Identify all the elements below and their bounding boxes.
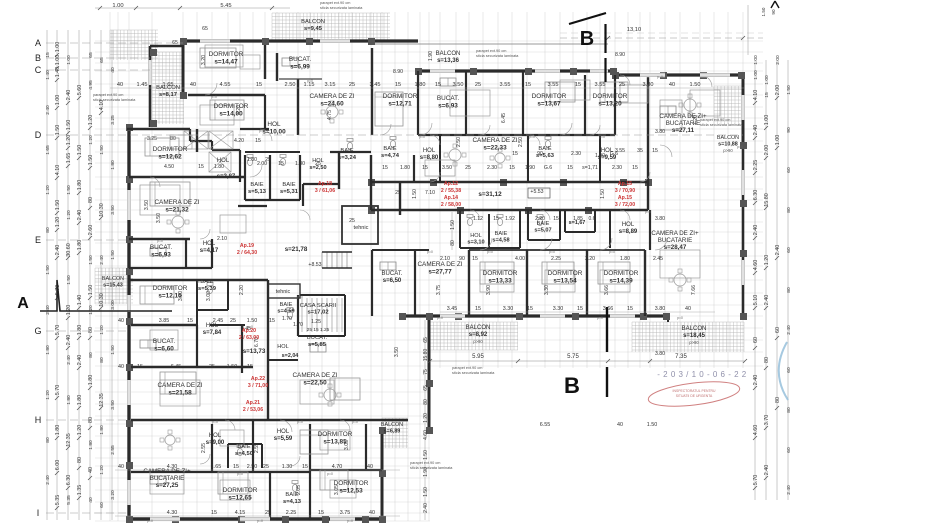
svg-text:p>90: p>90 [473,339,483,344]
svg-text:2.55: 2.55 [110,445,116,455]
svg-text:80: 80 [45,227,51,233]
svg-text:CAMERA DE ZI: CAMERA DE ZI [154,199,199,206]
svg-text:DORMITOR: DORMITOR [153,285,188,292]
svg-text:BUCAT.: BUCAT. [382,271,403,277]
svg-text:3.15: 3.15 [325,82,336,88]
svg-text:p=0: p=0 [247,325,253,329]
svg-text:3 / 61,06: 3 / 61,06 [315,188,335,194]
svg-text:BUCAT.: BUCAT. [289,56,311,63]
svg-text:1.30: 1.30 [282,464,293,470]
svg-text:s=21,32: s=21,32 [165,207,189,214]
svg-text:BALCON: BALCON [381,422,403,428]
svg-text:1.50: 1.50 [227,364,238,370]
svg-text:4.00: 4.00 [515,256,525,262]
svg-text:p=0: p=0 [609,250,615,254]
svg-text:BALCON: BALCON [466,325,491,331]
svg-text:65: 65 [423,385,429,391]
svg-text:1.20: 1.20 [764,255,770,266]
svg-text:2.00: 2.00 [775,85,781,96]
svg-text:2 / 53,06: 2 / 53,06 [243,407,263,413]
svg-text:3.00: 3.00 [110,300,116,310]
svg-text:2.40: 2.40 [764,295,770,306]
svg-text:2 / 63,00: 2 / 63,00 [239,335,259,341]
svg-text:sticla securizata laminata: sticla securizata laminata [93,98,136,102]
svg-text:4.60: 4.60 [753,425,759,436]
svg-text:p=0: p=0 [437,316,443,320]
svg-text:25: 25 [263,464,269,470]
svg-text:1.80: 1.80 [77,240,83,251]
svg-text:2.00: 2.00 [775,55,781,65]
svg-text:B: B [580,28,594,50]
svg-text:7.66: 7.66 [691,285,697,295]
svg-text:10.30: 10.30 [99,203,105,217]
svg-text:4.60: 4.60 [423,430,429,440]
svg-text:HOL: HOL [312,158,324,164]
svg-text:4.95: 4.95 [88,80,94,90]
svg-text:3.75: 3.75 [436,285,442,295]
svg-text:p=0: p=0 [517,316,523,320]
svg-text:15: 15 [278,161,284,167]
svg-text:15: 15 [652,148,658,154]
svg-text:1.35: 1.35 [77,485,83,496]
svg-text:1.50: 1.50 [786,85,792,95]
svg-text:p=0: p=0 [347,519,353,523]
svg-text:2.40: 2.40 [764,465,770,476]
svg-text:s=9,00: s=9,00 [206,440,225,446]
svg-text:s=4,59: s=4,59 [277,309,294,315]
svg-text:15: 15 [577,306,583,312]
svg-text:p=0: p=0 [419,135,425,139]
svg-text:1.50: 1.50 [412,189,418,199]
svg-text:s=9,59: s=9,59 [598,155,617,161]
svg-text:DORMITOR: DORMITOR [209,51,244,58]
svg-text:15: 15 [493,216,499,222]
svg-text:p=0: p=0 [257,519,263,523]
svg-text:p=0: p=0 [597,316,603,320]
svg-text:1.90: 1.90 [525,165,535,171]
svg-text:s=9,45: s=9,45 [304,26,323,32]
svg-text:40: 40 [118,464,124,470]
svg-text:Ap.22: Ap.22 [251,376,265,382]
svg-text:15: 15 [198,164,204,170]
svg-text:BALCON: BALCON [156,85,180,91]
svg-text:2.45: 2.45 [653,256,663,262]
svg-text:2.40: 2.40 [66,335,72,346]
svg-text:CAMERA DE ZI: CAMERA DE ZI [309,93,354,100]
svg-text:s=4,74: s=4,74 [381,153,400,159]
svg-text:2.10: 2.10 [217,236,227,242]
svg-text:tehnic: tehnic [354,225,369,231]
svg-text:60: 60 [786,367,792,373]
svg-text:1.00: 1.00 [66,55,72,65]
svg-text:3.55: 3.55 [595,82,606,88]
svg-text:p=0: p=0 [599,135,605,139]
svg-text:80: 80 [88,327,94,333]
svg-text:HOL: HOL [209,433,222,439]
svg-text:15: 15 [575,82,581,88]
svg-text:s=13,73: s=13,73 [243,348,266,355]
svg-text:25: 25 [395,190,401,196]
svg-text:3.50: 3.50 [442,165,452,171]
svg-text:15: 15 [553,216,559,222]
svg-text:1.20: 1.20 [77,425,83,436]
svg-text:SITUATII DE URGENTA: SITUATII DE URGENTA [676,394,713,398]
svg-text:25: 25 [349,218,355,224]
svg-text:15: 15 [395,82,401,88]
svg-text:80: 80 [170,136,176,142]
svg-text:65: 65 [423,337,429,343]
svg-text:4.50: 4.50 [164,164,174,170]
svg-text:sticla securizata laminata: sticla securizata laminata [700,123,743,127]
svg-text:15: 15 [318,510,324,516]
svg-text:DORMITOR: DORMITOR [223,487,258,494]
svg-text:p=0: p=0 [677,316,683,320]
svg-text:s=8,17: s=8,17 [159,92,177,98]
svg-text:5.70: 5.70 [753,475,759,486]
svg-text:1.00: 1.00 [764,115,770,126]
svg-text:75: 75 [423,369,429,375]
svg-text:4.10: 4.10 [55,165,61,176]
svg-text:s=22,50: s=22,50 [303,380,327,387]
svg-text:1.50: 1.50 [600,189,606,199]
svg-text:60: 60 [753,337,759,343]
svg-text:s=3,24: s=3,24 [338,155,357,161]
svg-text:s=8,80: s=8,80 [420,155,439,161]
svg-text:80: 80 [423,399,429,405]
svg-text:15.80: 15.80 [764,193,770,207]
svg-text:s=6,93: s=6,93 [151,252,171,259]
svg-text:2 / 58,00: 2 / 58,00 [441,202,461,208]
svg-text:p>90: p>90 [723,148,733,153]
svg-text:3.45: 3.45 [447,306,458,312]
svg-text:25: 25 [465,165,471,171]
svg-text:35: 35 [637,148,643,154]
svg-text:BUCATARIE: BUCATARIE [150,475,185,482]
svg-text:s=5,31: s=5,31 [280,189,299,195]
svg-text:25: 25 [349,82,355,88]
svg-text:DORMITOR: DORMITOR [532,93,567,100]
svg-text:tehnic: tehnic [276,289,291,295]
svg-text:60: 60 [786,247,792,253]
svg-text:3.50: 3.50 [110,205,116,215]
svg-text:1.80: 1.80 [55,425,61,436]
svg-text:3.80: 3.80 [655,306,666,312]
svg-text:1.65: 1.65 [211,464,222,470]
svg-text:1.20: 1.20 [55,217,61,228]
svg-text:BAIE: BAIE [285,492,298,498]
svg-text:p=0: p=0 [212,420,218,424]
svg-text:4.15: 4.15 [235,510,246,516]
svg-text:1.65: 1.65 [45,145,51,155]
svg-text:BAIE: BAIE [280,302,293,308]
svg-text:- 2 0 3 / 1 0 - 0 6 - 2 2: - 2 0 3 / 1 0 - 0 6 - 2 2 [657,370,746,379]
svg-text:1.80: 1.80 [415,82,426,88]
svg-text:1.50: 1.50 [99,145,105,155]
svg-text:s=17,02: s=17,02 [307,310,328,316]
svg-text:8.90: 8.90 [615,52,625,58]
svg-text:15: 15 [764,92,770,98]
svg-text:s=14,00: s=14,00 [219,111,243,118]
svg-text:2.40: 2.40 [786,325,792,335]
svg-text:s=5,13: s=5,13 [248,189,267,195]
svg-text:3.55: 3.55 [548,82,559,88]
svg-text:25: 25 [475,82,481,88]
svg-text:1.80: 1.80 [110,160,116,170]
svg-text:2.40: 2.40 [55,245,61,256]
svg-text:D: D [35,130,42,140]
svg-text:1.92: 1.92 [505,216,515,222]
svg-text:1.80: 1.80 [77,180,83,191]
svg-text:15: 15 [247,364,253,370]
svg-text:HOL: HOL [622,222,635,228]
svg-text:s=6,99: s=6,99 [290,64,310,71]
svg-text:p=0: p=0 [211,95,217,99]
svg-text:2.40: 2.40 [66,355,72,365]
svg-text:2.40: 2.40 [45,475,51,485]
svg-text:p=0: p=0 [259,129,265,133]
svg-text:parapet ext.90 cm: parapet ext.90 cm [410,461,440,465]
svg-text:1.50: 1.50 [66,275,72,285]
svg-text:65: 65 [88,52,94,58]
svg-text:1.20: 1.20 [45,185,51,195]
svg-text:30.60: 30.60 [66,243,72,257]
svg-text:25: 25 [265,157,271,163]
svg-text:DORMITOR: DORMITOR [214,103,249,110]
svg-text:s=4,13: s=4,13 [283,499,302,505]
svg-text:1.50: 1.50 [110,250,116,260]
svg-text:1.20: 1.20 [45,390,51,400]
svg-text:5.10: 5.10 [753,295,759,306]
svg-text:DORMITOR: DORMITOR [318,431,353,438]
svg-text:3.20: 3.20 [110,490,116,500]
svg-text:Ap.15: Ap.15 [618,181,632,187]
svg-text:1.40: 1.40 [45,70,51,80]
svg-text:BALCON: BALCON [301,19,325,25]
svg-text:CAMERA DE ZI: CAMERA DE ZI [417,261,462,268]
svg-text:s=5,63: s=5,63 [536,153,555,159]
svg-text:40: 40 [669,82,675,88]
svg-text:1.20: 1.20 [88,135,94,145]
svg-text:BUCATARIE: BUCATARIE [658,237,693,244]
svg-text:s=10,88: s=10,88 [718,142,738,148]
svg-text:15: 15 [382,165,388,171]
svg-text:2.50: 2.50 [518,137,524,147]
svg-text:2.40: 2.40 [775,245,781,256]
svg-text:3.66: 3.66 [604,285,610,295]
svg-text:7.35: 7.35 [675,354,687,360]
svg-text:15: 15 [233,464,239,470]
svg-text:DORMITOR: DORMITOR [153,146,188,153]
svg-text:DORMITOR: DORMITOR [604,270,639,277]
svg-text:5.75: 5.75 [567,354,579,360]
svg-text:s=14,39: s=14,39 [609,278,633,285]
svg-text:BALCON: BALCON [102,276,124,282]
svg-text:3.70: 3.70 [764,415,770,426]
svg-text:p=0: p=0 [297,295,303,299]
svg-text:Ap.21: Ap.21 [246,400,260,406]
svg-text:25: 25 [265,510,271,516]
svg-text:DORMITOR: DORMITOR [483,270,518,277]
svg-text:15: 15 [45,52,51,58]
svg-text:CAMERA DE ZI: CAMERA DE ZI [472,137,517,144]
svg-text:5.95: 5.95 [472,354,484,360]
svg-text:1.50: 1.50 [55,200,61,211]
svg-text:s=5,07: s=5,07 [534,228,551,234]
svg-text:BUCAT.: BUCAT. [150,244,172,251]
svg-text:1.45: 1.45 [137,82,148,88]
svg-text:BUCAT.: BUCAT. [153,338,175,345]
svg-text:1.12: 1.12 [473,216,483,222]
svg-text:80: 80 [786,207,792,213]
svg-text:3.30: 3.30 [544,285,550,295]
svg-text:1.00: 1.00 [764,75,770,85]
svg-text:2.40: 2.40 [423,503,429,513]
svg-text:2 / 64,30: 2 / 64,30 [237,250,257,256]
svg-text:1.80: 1.80 [400,165,410,171]
svg-text:2.40: 2.40 [753,225,759,236]
svg-text:6.45: 6.45 [501,113,507,123]
svg-text:s=8,89: s=8,89 [619,229,638,235]
svg-text:s=3,87: s=3,87 [217,174,236,180]
svg-text:s=12,62: s=12,62 [158,154,182,161]
svg-text:80: 80 [45,437,51,443]
svg-text:CAMERA DE ZI: CAMERA DE ZI [292,372,337,379]
svg-text:1.50: 1.50 [690,82,701,88]
svg-text:10.30: 10.30 [99,293,105,307]
svg-text:p=0: p=0 [657,75,663,79]
svg-text:s=7,84: s=7,84 [203,330,222,336]
svg-text:3.80: 3.80 [643,82,654,88]
svg-text:1.20: 1.20 [66,210,72,220]
svg-text:6.55: 6.55 [540,422,551,428]
svg-text:BALCON: BALCON [436,51,461,57]
svg-text:3.50: 3.50 [453,82,464,88]
svg-text:s=13,85: s=13,85 [323,439,347,446]
svg-text:1.50: 1.50 [45,265,51,275]
svg-text:80: 80 [450,240,456,246]
svg-text:3.85: 3.85 [159,318,170,324]
svg-text:3.80: 3.80 [655,351,665,357]
svg-text:1.80: 1.80 [77,325,83,336]
svg-text:HOL: HOL [470,233,482,239]
svg-text:90: 90 [771,9,776,15]
svg-text:Ap.12: Ap.12 [444,181,458,187]
svg-text:1.50: 1.50 [423,450,429,460]
svg-text:p=0: p=0 [427,250,433,254]
svg-text:6.30: 6.30 [66,475,72,486]
svg-text:sticla securizata laminata: sticla securizata laminata [452,371,495,375]
svg-text:4.55: 4.55 [220,82,231,88]
svg-text:5.45: 5.45 [220,3,231,9]
svg-text:80: 80 [786,407,792,413]
svg-text:1.80: 1.80 [620,256,630,262]
svg-text:15: 15 [211,510,217,516]
svg-text:3.00: 3.00 [206,291,212,301]
svg-text:4.10: 4.10 [753,90,759,101]
svg-text:2.20: 2.20 [585,256,595,262]
svg-text:5.70: 5.70 [55,325,61,336]
svg-text:p=0: p=0 [645,210,651,214]
svg-text:40: 40 [190,82,196,88]
svg-text:5.35: 5.35 [55,495,61,506]
svg-text:40: 40 [685,306,691,312]
svg-text:15: 15 [187,318,193,324]
svg-text:1.90: 1.90 [428,51,434,61]
svg-text:H: H [35,415,42,425]
svg-text:2.25: 2.25 [286,510,297,516]
svg-text:parapet ext.90 cm: parapet ext.90 cm [700,118,730,122]
svg-text:1.80: 1.80 [295,161,305,167]
svg-text:sticla securizata laminata: sticla securizata laminata [410,466,453,470]
svg-text:s=4,50: s=4,50 [235,451,253,457]
svg-text:80: 80 [775,397,781,403]
svg-text:1.80: 1.80 [66,395,72,405]
svg-text:2.30: 2.30 [612,165,622,171]
svg-text:BALCON: BALCON [717,135,739,141]
svg-text:90: 90 [786,127,792,133]
svg-text:CAMERA DE ZI: CAMERA DE ZI [157,382,202,389]
svg-text:p=0: p=0 [487,250,493,254]
svg-text:2.40: 2.40 [45,305,51,315]
svg-text:13,10: 13,10 [627,27,642,33]
svg-text:4.30: 4.30 [167,510,178,516]
svg-text:1.00: 1.00 [753,70,759,80]
svg-text:1.00: 1.00 [55,42,61,53]
svg-text:BAIE: BAIE [340,148,353,154]
svg-text:s=12,65: s=12,65 [228,495,252,502]
svg-text:HOL: HOL [217,158,230,164]
svg-text:15: 15 [137,364,143,370]
svg-text:p=0: p=0 [352,420,358,424]
svg-text:s=18,45: s=18,45 [683,333,706,339]
svg-text:1.50: 1.50 [66,120,72,131]
svg-text:s=5,39: s=5,39 [198,286,217,292]
svg-text:1.65: 1.65 [66,153,72,164]
svg-text:p=0: p=0 [237,472,243,476]
svg-text:+5.53: +5.53 [530,189,543,195]
svg-text:A: A [17,295,29,312]
svg-text:3.50: 3.50 [394,347,400,357]
svg-text:1.20: 1.20 [66,305,72,316]
svg-text:15: 15 [509,165,515,171]
svg-text:s=6,60: s=6,60 [154,346,174,353]
svg-text:1.40: 1.40 [77,295,83,306]
svg-text:80: 80 [88,197,94,203]
svg-text:BAIE: BAIE [383,146,396,152]
svg-text:s=1,71: s=1,71 [582,165,598,171]
svg-text:p=0: p=0 [197,280,203,284]
svg-text:2.20: 2.20 [239,285,245,295]
svg-text:s=13,33: s=13,33 [488,278,512,285]
svg-text:1.20: 1.20 [99,325,105,335]
svg-text:p=0: p=0 [529,135,535,139]
svg-text:HOL: HOL [601,148,614,154]
svg-text:15: 15 [255,138,261,144]
svg-text:CASA SCARII: CASA SCARII [300,303,337,309]
svg-text:1.20: 1.20 [66,135,72,146]
svg-text:p=0: p=0 [297,420,303,424]
svg-text:40: 40 [617,422,623,428]
svg-text:3.75: 3.75 [340,510,351,516]
svg-text:B: B [35,53,41,63]
svg-text:25: 25 [209,364,215,370]
svg-text:80: 80 [77,457,83,463]
svg-text:2.40: 2.40 [753,375,759,386]
svg-text:BAIE: BAIE [282,182,295,188]
svg-text:15.80: 15.80 [423,349,429,362]
svg-text:1.80: 1.80 [88,440,94,450]
svg-text:CAMERA DE ZI+: CAMERA DE ZI+ [143,468,191,475]
